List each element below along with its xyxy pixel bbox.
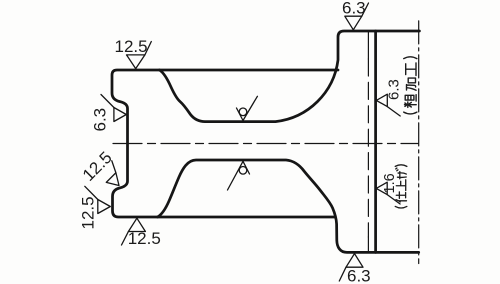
surface mark 6.3 bottom right <box>339 254 363 281</box>
label (粗加工) rotated column <box>404 57 417 114</box>
wire: bottom hump (forged boss) curve <box>158 160 419 252</box>
wire: top dip (forged pocket) curve <box>160 31 420 122</box>
svg-text:12.5: 12.5 <box>115 37 148 56</box>
svg-text:12.5: 12.5 <box>79 196 98 229</box>
wire: machined face thick vertical <box>374 31 377 252</box>
svg-text:6.3: 6.3 <box>386 79 403 100</box>
surface mark no-machining bottom plateau <box>228 161 250 190</box>
surface mark 1.6 right face <box>376 182 400 204</box>
label (仕上げ) rotated column <box>395 165 407 208</box>
wire: center line <box>113 143 418 145</box>
surface mark 12.5 top <box>127 42 152 69</box>
svg-text:1.6: 1.6 <box>382 173 398 193</box>
surface mark 12.5 bottom <box>122 218 146 245</box>
wire: main forged outline left/top <box>112 70 338 217</box>
surface mark 12.5 diagonal at step <box>98 161 128 191</box>
svg-text:6.3: 6.3 <box>347 267 371 284</box>
svg-text:12.5: 12.5 <box>128 229 161 248</box>
wire: finished face thin line (solid-dash-solid) <box>367 31 369 59</box>
surface mark 12.5 left lower <box>85 186 111 213</box>
surface mark 6.3 top right <box>345 3 369 30</box>
svg-text:6.3: 6.3 <box>342 0 366 18</box>
wire: phantom chain vertical right <box>418 21 420 264</box>
surface mark 6.3 right face <box>376 94 400 116</box>
surface mark 6.3 left <box>101 95 126 122</box>
svg-text:6.3: 6.3 <box>91 108 110 132</box>
surface mark no-machining top basin <box>237 96 258 120</box>
